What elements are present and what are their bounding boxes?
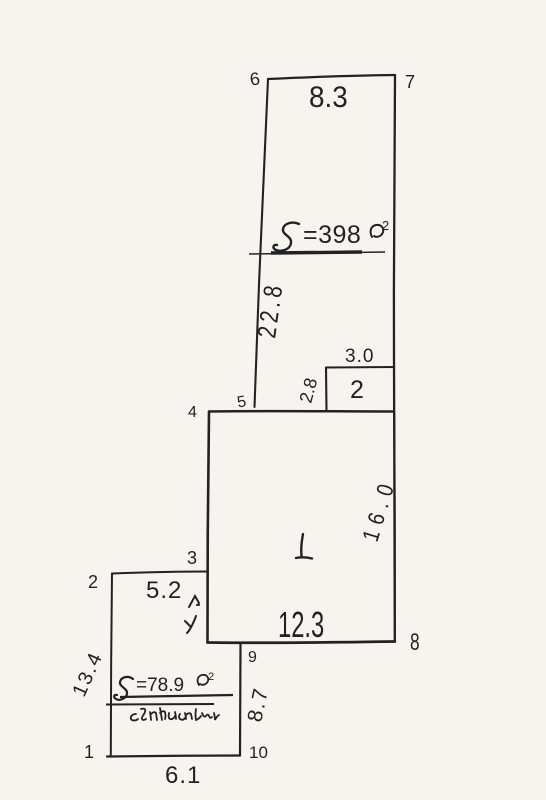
S=78.9 underline 2 — [106, 703, 214, 706]
svg-text:5: 5 — [236, 393, 248, 411]
svg-text:2: 2 — [88, 572, 98, 592]
building 1 right edge overlay — [393, 413, 396, 641]
svg-text:7: 7 — [405, 72, 415, 92]
building 1 left edge — [207, 412, 209, 643]
svg-text:5.2: 5.2 — [146, 577, 182, 604]
svg-text:=78.9: =78.9 — [136, 675, 184, 696]
svg-text:6: 6 — [249, 68, 262, 89]
svg-text:2: 2 — [208, 671, 214, 683]
svg-text:8.7: 8.7 — [243, 685, 273, 724]
S=78.9 m squared symbol — [198, 675, 209, 685]
S=78.9 underline 1 — [120, 695, 233, 697]
svg-text:3.0: 3.0 — [345, 346, 374, 367]
svg-text:2.8: 2.8 — [296, 376, 322, 405]
S=78.9 script S — [114, 677, 133, 700]
yard top edge 2-3 — [112, 572, 208, 574]
yard right edge 10-9 — [239, 644, 242, 756]
S=398 underline thin — [249, 252, 385, 254]
svg-text:12.3: 12.3 — [278, 605, 324, 645]
S=398 m squared symbol — [371, 225, 384, 237]
svg-text:22.8: 22.8 — [252, 280, 288, 340]
parcel top edge 6-7 — [268, 75, 395, 79]
svg-text:8.3: 8.3 — [309, 81, 348, 114]
parcel left slanted edge 6-5 — [255, 79, 269, 407]
svg-text:4: 4 — [188, 404, 197, 421]
svg-text:=398: =398 — [303, 221, 361, 249]
room 2 left edge — [325, 368, 328, 412]
svg-text:10: 10 — [249, 743, 268, 762]
S=398 script S — [273, 223, 299, 251]
svg-text:2: 2 — [350, 376, 364, 404]
parcel right edge 7-8 (long vertical) — [394, 75, 395, 641]
S=398 underline thick — [271, 252, 362, 253]
building 1 top edge — [209, 410, 394, 413]
svg-text:9: 9 — [248, 649, 257, 666]
building 1 bottom edge — [208, 642, 395, 643]
room 2 top edge — [326, 366, 394, 369]
yard left edge 2-1 — [111, 574, 112, 757]
small mark 7.4 (rotated) near point 3 — [189, 596, 199, 607]
svg-text:1: 1 — [84, 742, 94, 762]
handwritten word (cursive) — [131, 708, 219, 721]
svg-text:3: 3 — [187, 548, 197, 568]
svg-text:8: 8 — [410, 629, 420, 655]
yard bottom edge 1-10 — [107, 756, 240, 757]
svg-text:6.1: 6.1 — [165, 762, 201, 789]
building 1 room label 1 — [296, 534, 312, 559]
svg-text:2: 2 — [382, 218, 389, 233]
svg-text:13.4: 13.4 — [68, 648, 107, 700]
